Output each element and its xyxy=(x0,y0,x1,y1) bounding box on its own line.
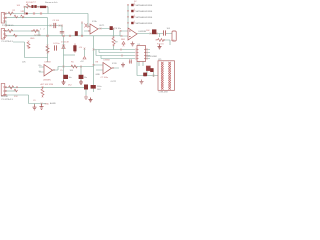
svg-text:C2 104: C2 104 xyxy=(34,35,41,37)
svg-text:GND: GND xyxy=(96,74,101,76)
svg-text:LM358: LM358 xyxy=(104,60,111,62)
svg-text:IC1B: IC1B xyxy=(112,63,117,65)
svg-text:10u: 10u xyxy=(69,77,72,79)
svg-text:LM358N: LM358N xyxy=(43,79,51,81)
svg-text:C7 100u: C7 100u xyxy=(101,77,109,79)
svg-text:OUT1: OUT1 xyxy=(99,25,105,27)
svg-text:GND: GND xyxy=(45,103,50,105)
svg-text:SMT-HELED1206: SMT-HELED1206 xyxy=(136,11,153,13)
svg-text:R10 1K: R10 1K xyxy=(157,43,164,45)
svg-text:10u: 10u xyxy=(84,77,87,79)
svg-text:SMT-HELED1206: SMT-HELED1206 xyxy=(136,5,153,7)
svg-text:IN-: IN- xyxy=(39,71,42,73)
svg-text:100u: 100u xyxy=(97,86,101,88)
svg-text:LM358: LM358 xyxy=(45,61,52,63)
svg-text:C4 10u: C4 10u xyxy=(53,43,59,45)
svg-text:OUT2: OUT2 xyxy=(111,81,117,83)
svg-text:SMT-HELED1206: SMT-HELED1206 xyxy=(136,17,153,19)
svg-text:LM3914SM: LM3914SM xyxy=(147,56,158,58)
svg-text:GND: GND xyxy=(30,38,35,40)
svg-text:C3 104: C3 104 xyxy=(53,20,60,22)
svg-text:SMT-HELED1206: SMT-HELED1206 xyxy=(136,23,153,25)
svg-text:IN-GND: IN-GND xyxy=(1,96,9,98)
svg-text:R1 10K: R1 10K xyxy=(26,2,34,4)
svg-text:D1 4148: D1 4148 xyxy=(61,41,69,43)
svg-text:LM393N: LM393N xyxy=(139,31,147,33)
svg-text:CON-2X8: CON-2X8 xyxy=(159,92,169,94)
svg-text:C6 10u: C6 10u xyxy=(115,28,121,30)
